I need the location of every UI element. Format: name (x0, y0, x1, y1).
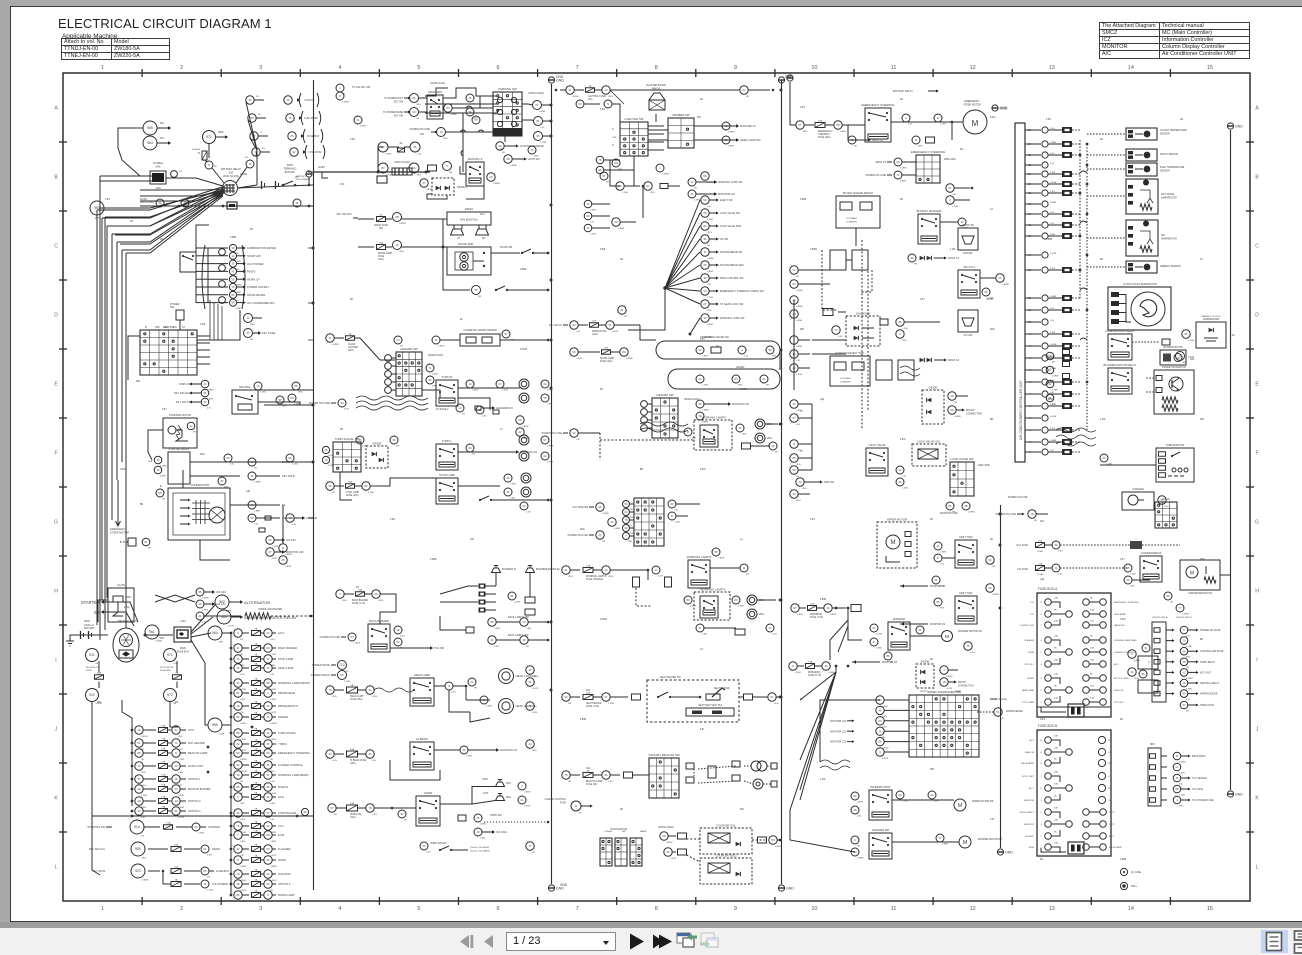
fan branch RIDE CONTROL SW (665, 278, 700, 288)
svg-text:ALTERNATOR: ALTERNATOR (244, 600, 270, 605)
svg-text:67: 67 (799, 123, 802, 127)
svg-text:0.85R: 0.85R (940, 552, 946, 554)
svg-text:59: 59 (897, 160, 900, 164)
svg-text:24: 24 (199, 614, 202, 618)
switch grid (634, 498, 664, 546)
svg-text:2RG: 2RG (1186, 657, 1191, 659)
svg-text:78: 78 (599, 158, 602, 162)
svg-text:83: 83 (237, 893, 240, 897)
svg-text:STOP LAMP: STOP LAMP (439, 473, 455, 477)
svg-text:0.5G: 0.5G (1046, 119, 1051, 121)
connector ring pin (264, 679, 272, 687)
svg-text:FUSE 80A: FUSE 80A (160, 669, 171, 672)
svg-text:4: 4 (1040, 664, 1042, 666)
svg-text:2R: 2R (526, 646, 529, 648)
svg-text:97: 97 (544, 438, 547, 442)
pin (479, 584, 486, 589)
connector ring pin (466, 94, 474, 102)
svg-text:0.5YR: 0.5YR (178, 817, 184, 819)
connector ring pin (326, 482, 334, 490)
fuse row OPTION 1 (131, 778, 134, 781)
svg-text:BLOWER MOTOR RELAY: BLOWER MOTOR RELAY (1104, 363, 1137, 367)
svg-text:91: 91 (565, 568, 568, 572)
svg-text:0.85L: 0.85L (922, 636, 928, 638)
svg-text:23: 23 (699, 377, 702, 381)
svg-text:2R: 2R (270, 901, 273, 903)
connector ring pin (1100, 454, 1108, 462)
fuse row ECM (230, 834, 233, 837)
arrow (243, 301, 246, 304)
connector ring pin (986, 584, 994, 592)
arrow (1188, 755, 1191, 758)
arrow (1196, 682, 1199, 685)
svg-text:0.5YR: 0.5YR (670, 858, 677, 860)
svg-text:68: 68 (704, 211, 707, 215)
connector ring pin (264, 809, 272, 817)
arrow (944, 256, 947, 259)
svg-text:3.5A: 3.5A (1230, 334, 1235, 337)
svg-text:BR: BR (1200, 639, 1204, 641)
svg-text:3: 3 (905, 116, 907, 120)
svg-text:MIST SW1: MIST SW1 (959, 591, 973, 595)
connector ring pin (264, 713, 272, 721)
svg-text:11: 11 (891, 65, 897, 71)
svg-text:10A: 10A (1054, 782, 1058, 785)
col4 dashed verticals (861, 240, 863, 430)
connector ring 712 (338, 661, 347, 670)
svg-text:3: 3 (259, 65, 262, 71)
svg-text:LIGHT SW: LIGHT SW (528, 158, 540, 161)
ground (778, 77, 784, 83)
svg-text:FUSE BOX-A: FUSE BOX-A (1038, 587, 1058, 591)
pin (458, 815, 466, 821)
svg-text:43: 43 (175, 764, 178, 768)
connector ring pin (219, 249, 226, 256)
beacon lamp 2 (753, 779, 763, 789)
svg-text:5R: 5R (857, 846, 860, 848)
connector ring pin (876, 737, 884, 745)
connector ring pin (234, 831, 242, 839)
svg-text:WL: WL (1040, 859, 1044, 861)
previous-view icon (677, 933, 690, 943)
svg-text:45: 45 (469, 96, 472, 100)
svg-text:6: 6 (1040, 788, 1042, 790)
wire backlamp to bus (528, 621, 548, 623)
svg-text:SLOW BLOW: SLOW BLOW (86, 667, 100, 669)
fuse row A/C1 (230, 632, 233, 635)
svg-text:5: 5 (267, 893, 269, 897)
svg-text:(10A): (10A) (350, 816, 356, 819)
changer box small (1122, 492, 1154, 510)
svg-text:93: 93 (475, 288, 478, 292)
svg-text:A/C2: A/C2 (1114, 663, 1119, 666)
fuse (252, 785, 261, 790)
fan branch FAN REVERSE SW (665, 252, 700, 288)
connector ring pin (326, 750, 334, 758)
svg-text:100Ah x2: 100Ah x2 (84, 624, 94, 627)
svg-text:FUSE (10A): FUSE (10A) (346, 494, 359, 497)
arrow (716, 237, 719, 240)
svg-text:B: B (160, 485, 162, 488)
svg-text:5A: 5A (255, 868, 258, 871)
svg-text:BLASTER BAYER: BLASTER BAYER (646, 84, 666, 87)
connector ring pin (736, 424, 744, 432)
svg-text:15: 15 (951, 394, 954, 398)
lamp 25A (747, 595, 757, 605)
svg-text:12: 12 (970, 906, 976, 912)
connector ring pin (301, 808, 308, 815)
svg-text:0.5L: 0.5L (340, 184, 345, 186)
svg-text:51: 51 (267, 773, 270, 777)
connector ring pin (264, 822, 272, 830)
connector ring pin (288, 132, 296, 140)
connector ring pin (480, 696, 488, 704)
connector ring pin (390, 436, 398, 444)
svg-text:41: 41 (544, 382, 547, 386)
connector ring pin (623, 533, 630, 540)
svg-text:DIODE: DIODE (921, 659, 930, 663)
resistor (1204, 577, 1216, 583)
svg-text:2R: 2R (930, 519, 933, 521)
svg-text:35: 35 (599, 505, 602, 509)
wires es motor (891, 121, 963, 123)
connector ring pin (504, 488, 512, 496)
sh switch (657, 696, 659, 698)
connector ring pin (1139, 670, 1147, 678)
arrow (852, 740, 854, 743)
connector ring pin (322, 446, 329, 453)
svg-text:64: 64 (579, 102, 582, 106)
svg-text:0.5G: 0.5G (608, 781, 613, 783)
arrow (243, 293, 246, 296)
svg-text:0.85R: 0.85R (360, 126, 366, 128)
svg-text:0.5L: 0.5L (270, 819, 275, 821)
svg-text:1.25B: 1.25B (1179, 794, 1185, 796)
svg-text:96: 96 (159, 491, 162, 495)
svg-text:76: 76 (1183, 681, 1186, 685)
fuse row BEACON LAMP (131, 752, 134, 755)
bucket detent boxes left (830, 250, 846, 270)
svg-text:BEACON LAMP: BEACON LAMP (188, 751, 208, 755)
connector ring pin (688, 190, 696, 198)
svg-text:0.85L: 0.85L (432, 386, 438, 388)
svg-text:(2A): (2A) (588, 98, 593, 101)
svg-text:0.5YR: 0.5YR (198, 833, 204, 835)
connector ring pin (409, 163, 419, 173)
svg-text:HEAD LAMP: HEAD LAMP (350, 695, 364, 698)
svg-text:5R: 5R (606, 182, 609, 184)
svg-text:2RG: 2RG (707, 310, 712, 312)
svg-text:INTAKE AIR HEATER RELAY: INTAKE AIR HEATER RELAY (244, 615, 297, 620)
svg-text:3: 3 (1040, 824, 1042, 826)
svg-text:7.5A: 7.5A (161, 795, 166, 798)
lamp 25A (755, 433, 765, 443)
wires buzzer (440, 586, 478, 594)
connector ring pin (172, 749, 180, 757)
connector ring 965 (143, 121, 157, 135)
connector ring 514 (130, 820, 144, 834)
svg-text:WASHER: WASHER (893, 617, 905, 621)
svg-text:0.85R: 0.85R (796, 320, 802, 322)
connector ring pin (722, 136, 730, 144)
svg-text:BEACON: BEACON (1025, 751, 1034, 754)
svg-text:17: 17 (792, 664, 795, 668)
diode (1209, 328, 1214, 332)
svg-text:5A: 5A (197, 151, 200, 154)
svg-text:1.25B: 1.25B (1106, 464, 1112, 466)
pin (926, 137, 935, 143)
svg-text:OPTION 4: OPTION 4 (188, 809, 201, 813)
fuse (398, 148, 405, 152)
svg-text:13: 13 (247, 316, 250, 320)
pin (479, 600, 486, 605)
svg-text:80: 80 (382, 166, 385, 170)
svg-text:25A: 25A (506, 795, 511, 799)
svg-text:MONITOR C23: MONITOR C23 (732, 403, 750, 406)
svg-text:8: 8 (1040, 614, 1042, 616)
battery relay ellipse (113, 628, 139, 662)
connector ring pin (701, 235, 709, 243)
svg-text:GY: GY (1200, 259, 1204, 261)
pin (686, 777, 694, 783)
pin (1159, 459, 1166, 464)
svg-text:50: 50 (625, 502, 628, 506)
fuse (252, 858, 261, 863)
sheet title (58, 16, 272, 31)
bus wire col2/3 (551, 84, 553, 884)
svg-text:53: 53 (772, 838, 775, 842)
svg-text:69: 69 (267, 882, 270, 886)
pin (466, 627, 474, 633)
dotted wire horn sw (484, 821, 548, 823)
fuse (252, 833, 261, 838)
svg-text:0.5L: 0.5L (141, 836, 146, 838)
svg-text:RW: RW (740, 809, 745, 811)
fuse row DEICER (230, 716, 233, 719)
arrow (852, 730, 854, 733)
svg-text:63: 63 (267, 847, 270, 851)
svg-text:2RG: 2RG (200, 454, 205, 456)
connector ring pin (600, 172, 608, 180)
svg-text:61: 61 (771, 695, 774, 699)
svg-text:5R: 5R (930, 659, 933, 661)
fuse (252, 811, 261, 816)
connector ring pin (790, 364, 798, 372)
wavy col5 (1056, 428, 1096, 432)
wire beacon (610, 774, 620, 776)
svg-text:0.85W: 0.85W (666, 842, 673, 844)
svg-text:2B: 2B (620, 809, 623, 811)
connector ring pin (264, 702, 272, 710)
connector ring pin (1180, 679, 1188, 687)
svg-text:ICZ C31A: ICZ C31A (496, 831, 507, 834)
svg-text:0.5G: 0.5G (362, 446, 367, 448)
svg-text:0.5RW: 0.5RW (702, 410, 710, 412)
diode (927, 410, 932, 414)
wire relay drop (460, 166, 466, 174)
pin (1063, 350, 1070, 355)
svg-text:1.25B: 1.25B (902, 328, 908, 330)
svg-text:20: 20 (1183, 639, 1186, 643)
svg-text:5A: 5A (356, 586, 359, 589)
svg-text:0.5L: 0.5L (141, 817, 146, 819)
svg-text:(2N1CN-30P)-B: (2N1CN-30P)-B (1176, 617, 1192, 619)
svg-text:65: 65 (699, 402, 702, 406)
horn BUZZER R (492, 568, 501, 573)
svg-text:0.5RW: 0.5RW (796, 290, 804, 292)
dashed box * WORKING LAMP R (694, 592, 730, 620)
svg-text:5A: 5A (255, 727, 258, 730)
arrow (435, 131, 438, 134)
pin (732, 775, 740, 781)
svg-text:2RG: 2RG (282, 406, 287, 408)
switch grid DIMMER SW (668, 118, 694, 148)
svg-text:83: 83 (735, 598, 738, 602)
svg-text:7: 7 (237, 833, 239, 837)
svg-text:8: 8 (687, 430, 689, 434)
svg-text:OPTION 1: OPTION 1 (1024, 664, 1035, 666)
svg-text:26: 26 (507, 476, 510, 480)
connector ring pin (326, 686, 334, 694)
continuous view button (partially cut) (1295, 931, 1302, 940)
room lamp contacts (483, 252, 485, 254)
connector ring pin (264, 761, 272, 769)
svg-text:71: 71 (607, 102, 610, 106)
svg-text:I: I (55, 658, 56, 664)
connector ring 964 (208, 626, 222, 640)
connector ring pin (219, 265, 226, 272)
svg-text:140A: 140A (180, 620, 186, 623)
svg-text:TCU POWER: TCU POWER (212, 882, 228, 886)
connector ring pin (790, 440, 798, 448)
connector ring pin (562, 566, 570, 574)
svg-text:GND: GND (560, 883, 568, 887)
wire bb loop (380, 594, 396, 624)
pin (1154, 660, 1160, 665)
svg-text:964: 964 (212, 631, 218, 635)
connector ring pin (722, 122, 730, 130)
svg-text:4001: 4001 (126, 596, 132, 599)
svg-text:KEY SW: KEY SW (394, 114, 404, 117)
connector ring pin (541, 394, 549, 402)
svg-text:SMCZ C2: SMCZ C2 (948, 359, 960, 362)
connector ring pin (142, 538, 150, 546)
svg-text:2R: 2R (1100, 139, 1103, 141)
svg-text:10A: 10A (350, 802, 354, 805)
svg-text:98: 98 (267, 858, 270, 862)
resistor (245, 613, 271, 619)
fan branch EMERGENCY STEERING CHECK SW (665, 288, 700, 291)
svg-text:74: 74 (257, 384, 260, 388)
neutral relay box (232, 390, 258, 414)
front bucket box (958, 228, 978, 250)
relay BLOWER MOTOR RELAY (1108, 368, 1132, 394)
loop wires (378, 147, 383, 172)
svg-text:5A: 5A (255, 642, 258, 645)
fuse row BACK BUZZER (230, 647, 233, 650)
svg-text:2R: 2R (900, 99, 903, 101)
connector ring pin (946, 196, 954, 204)
svg-text:5A: 5A (1054, 830, 1057, 833)
svg-text:77: 77 (671, 514, 674, 518)
applicable machine label (62, 33, 117, 40)
svg-text:10A: 10A (1054, 818, 1058, 821)
svg-text:OPTION 3: OPTION 3 (1114, 702, 1125, 704)
connector ring pin (394, 638, 402, 646)
svg-text:20A: 20A (810, 602, 814, 605)
pin (1159, 473, 1166, 478)
fuse (159, 799, 168, 804)
svg-text:0.5RW: 0.5RW (240, 759, 248, 761)
connector ring pin (229, 291, 236, 298)
svg-text:5A: 5A (255, 759, 258, 762)
ground (548, 77, 554, 83)
svg-text:HORN: HORN (1028, 652, 1035, 654)
svg-text:0.5G: 0.5G (270, 781, 275, 783)
fuse row OPTION 1 (230, 883, 233, 886)
connector ring pin (660, 832, 668, 840)
connector ring pin (366, 750, 374, 758)
svg-text:LOWER: LOWER (604, 831, 612, 833)
dark tab (377, 176, 387, 183)
feeder wire group A (131, 727, 133, 806)
relay EMERGENCY STEERING (865, 108, 891, 142)
fuse row DAY HEATER (131, 742, 134, 745)
connector ring pin (996, 274, 1004, 282)
wavy wires (356, 396, 428, 400)
svg-text:0.5L: 0.5L (292, 524, 297, 526)
svg-text:OPT3: OPT3 (1109, 824, 1115, 826)
wires into fusible link (140, 175, 152, 177)
pin (678, 833, 687, 839)
svg-text:1.25B: 1.25B (368, 492, 374, 494)
vertical x257 (256, 150, 258, 185)
svg-text:FROST SENSOR: FROST SENSOR (1160, 154, 1178, 156)
svg-text:7.5A: 7.5A (161, 724, 166, 727)
svg-text:0.5RW: 0.5RW (510, 165, 518, 167)
svg-text:20A: 20A (1054, 734, 1058, 737)
svg-text:HORN: HORN (424, 791, 432, 795)
svg-text:5R: 5R (624, 316, 627, 318)
svg-text:WASHER MOTOR RR: WASHER MOTOR RR (978, 838, 1002, 841)
svg-text:CONNECTION: CONNECTION (958, 685, 974, 687)
svg-text:5A: 5A (351, 684, 354, 687)
wire alt bottom (200, 540, 230, 560)
svg-text:SLOW BLOW: SLOW BLOW (160, 667, 174, 669)
svg-text:27: 27 (499, 382, 502, 386)
svg-text:HEAD LAMP SW: HEAD LAMP SW (740, 138, 761, 142)
connector ring 965 (208, 718, 222, 732)
connector ring pin (896, 318, 904, 326)
wire stop l (370, 478, 436, 486)
svg-text:DISPLAY: DISPLAY (179, 382, 190, 386)
connector ring pin (1182, 330, 1190, 338)
connector ring pin (562, 771, 570, 779)
connector ring pin (701, 196, 709, 204)
lamp (519, 393, 529, 403)
connector ring pin (456, 404, 464, 412)
connector ring pin (218, 477, 226, 485)
svg-text:5A: 5A (255, 889, 258, 892)
wire room lamp right (491, 252, 520, 254)
svg-text:10A: 10A (586, 767, 591, 770)
svg-text:UP/DN: UP/DN (986, 299, 993, 301)
AC trunk dashed verticals (1079, 140, 1081, 300)
connector ring pin (796, 478, 804, 486)
connector ring pin (504, 474, 512, 482)
svg-text:88: 88 (237, 731, 240, 735)
pin (525, 609, 535, 615)
